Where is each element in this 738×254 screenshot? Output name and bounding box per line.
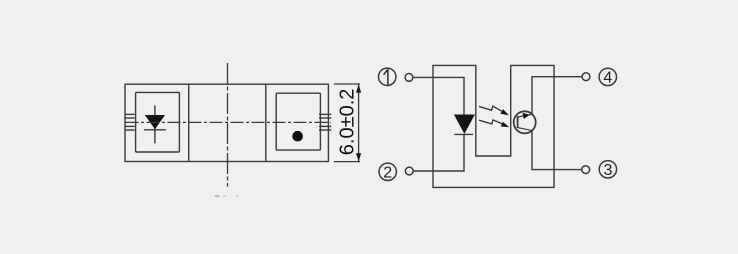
phototransistor emitter arrowhead	[523, 113, 530, 119]
dimension line with arrowheads	[358, 85, 360, 162]
svg-text:2: 2	[383, 165, 392, 182]
faint stray dashes below centerline	[215, 195, 219, 197]
dimension extension line bottom	[334, 161, 360, 163]
svg-text:3: 3	[603, 162, 612, 179]
diode D1 triangle	[145, 115, 165, 129]
phototransistor base bar	[517, 116, 519, 128]
pin 4 terminal circle	[582, 73, 590, 81]
phototransistor Q1 circle	[514, 111, 536, 133]
circled pin number 1	[379, 68, 396, 85]
phototransistor collector line	[518, 114, 532, 117]
pin 4 wire	[532, 77, 582, 115]
circled pin number 3	[599, 161, 616, 178]
right lead frame lines	[319, 113, 331, 115]
pin 1 wire	[413, 77, 464, 114]
circled pin number 2	[379, 163, 396, 180]
phototransistor emitter line	[518, 128, 532, 131]
pin number digit 1	[384, 69, 388, 84]
vertical centerline (dash-dot)	[227, 63, 229, 187]
package internal divider left	[188, 84, 190, 161]
dimension extension line top	[334, 83, 360, 85]
pin 2 wire	[413, 134, 464, 171]
package internal divider right	[265, 84, 267, 161]
pin 1 terminal circle	[405, 74, 413, 82]
pin-1 polarity dot	[292, 131, 303, 142]
light arrow upper	[479, 106, 502, 111]
pin 3 terminal circle	[582, 166, 590, 174]
detector cell inner rectangle	[276, 93, 320, 150]
left lead frame lines	[125, 113, 135, 115]
svg-text:4: 4	[603, 70, 612, 87]
horizontal centerline (dash-dot)	[126, 121, 331, 123]
LED triangle	[454, 115, 475, 134]
pin 3 wire	[532, 131, 582, 170]
package outer body rectangle	[125, 84, 328, 161]
light arrow lower	[479, 120, 503, 124]
pin 2 terminal circle	[405, 167, 413, 175]
diode D1 cathode bar	[144, 129, 166, 131]
circled pin number 4	[599, 68, 616, 85]
schematic body outline	[433, 65, 554, 187]
LED cell inner rectangle	[136, 92, 180, 152]
svg-text:6.0±0.2: 6.0±0.2	[337, 89, 359, 156]
LED cathode bar	[454, 133, 473, 135]
diode D1 anode/cathode axis line	[154, 106, 156, 144]
